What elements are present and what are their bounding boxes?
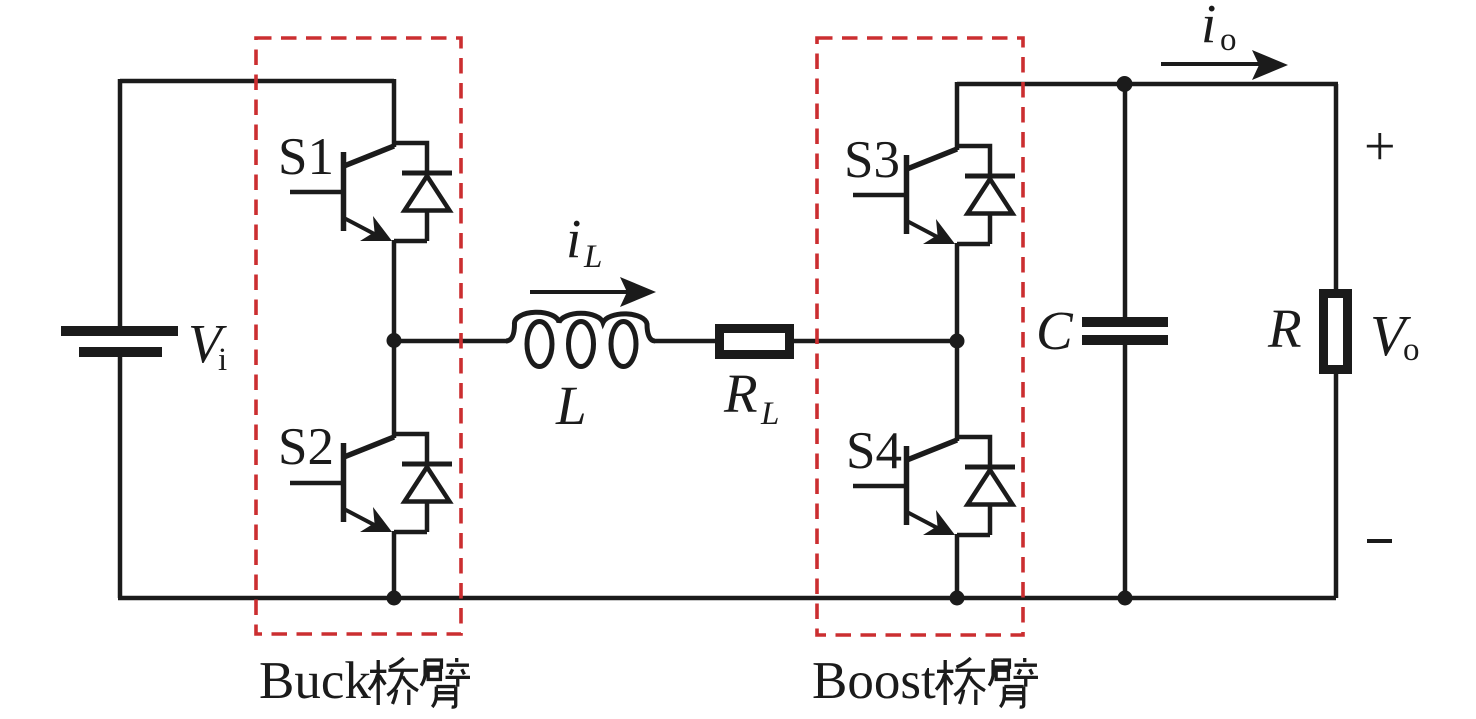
wire: S3 emitter to mid node B (955, 243, 960, 344)
diode D1 (antiparallel with S1) (394, 143, 452, 241)
wire: capacitor top branch (1123, 84, 1128, 318)
svg-text:S3: S3 (844, 131, 900, 189)
wire: S4 collector leg from node B (955, 344, 960, 441)
wire: capacitor bottom branch (1123, 344, 1128, 598)
junction dot: capacitor top (1117, 76, 1133, 92)
transistor S4 (IGBT) (853, 440, 957, 535)
svg-text:i: i (566, 208, 581, 269)
svg-text:+: + (1364, 116, 1396, 178)
hanzi bi (arm) of Buck label (421, 658, 470, 707)
svg-text:R: R (723, 363, 758, 424)
hanzi bi (arm) of Boost label (989, 658, 1038, 707)
wire: bottom rail (118, 596, 1336, 601)
node B junction dot (950, 334, 965, 349)
svg-text:Boost: Boost (812, 652, 936, 710)
battery Vi (61, 331, 178, 352)
wire: S1 collector leg (392, 79, 397, 147)
wire: top-left rail from battery+ to Buck leg (120, 79, 394, 84)
wire: RL to node B (793, 339, 957, 344)
svg-text:L: L (555, 375, 587, 436)
wire: S2 collector leg from node A (392, 341, 397, 438)
hanzi qiao (bridge) of Boost label (936, 658, 985, 705)
transistor S1 (IGBT) (290, 146, 394, 241)
hanzi qiao (bridge) of Buck label (369, 658, 418, 705)
capacitor C plates (1082, 322, 1168, 340)
label minus sign (1367, 539, 1392, 543)
resistor R (output load body) (1324, 294, 1348, 370)
svg-text:i: i (1201, 0, 1216, 54)
svg-text:S2: S2 (278, 418, 334, 476)
wire: right rail upper (corner to R top) (1334, 84, 1339, 290)
junction dot: capacitor bottom at bottom rail (1118, 591, 1133, 606)
node A junction dot (387, 333, 402, 348)
svg-text:S1: S1 (278, 128, 334, 186)
svg-text:Buck: Buck (259, 652, 371, 710)
wire: S1 emitter to mid node A (392, 240, 397, 341)
arrow iL (inductor current) (530, 277, 656, 307)
arrow io (output current) (1161, 50, 1288, 80)
junction dot: S2 emitter at bottom rail (387, 591, 402, 606)
wire: S4 emitter to bottom rail (955, 534, 960, 598)
svg-text:o: o (1403, 332, 1420, 368)
wire: left rail upper (battery top) (118, 79, 123, 327)
transistor S2 (IGBT) (290, 437, 394, 532)
junction dot: S4 emitter at bottom rail (950, 591, 965, 606)
Buck bridge-arm dashed box (256, 38, 461, 634)
wire: top-right rail from S3 to output corner (957, 82, 1338, 87)
wire: node A to inductor (394, 339, 506, 344)
inductor L (506, 312, 655, 366)
svg-text:i: i (218, 342, 227, 378)
Boost bridge-arm dashed box (817, 38, 1023, 635)
svg-text:L: L (760, 396, 779, 432)
svg-text:L: L (583, 239, 602, 275)
wire: inductor to RL (655, 339, 717, 344)
wire: left rail lower (battery bottom to bottom rail) (118, 356, 123, 598)
resistor RL (body) (720, 329, 790, 355)
diode D4 (antiparallel with S4) (957, 437, 1015, 535)
svg-text:R: R (1267, 298, 1302, 359)
wire: right rail lower (R bottom to bottom rail) (1334, 373, 1339, 598)
wire: S2 emitter to bottom rail (392, 531, 397, 598)
svg-text:C: C (1036, 300, 1074, 361)
svg-text:S4: S4 (846, 422, 902, 480)
wire: S3 collector leg (955, 82, 960, 150)
svg-text:o: o (1220, 22, 1237, 58)
transistor S3 (IGBT) (853, 149, 957, 244)
diode D3 (antiparallel with S3) (957, 146, 1015, 244)
diode D2 (antiparallel with S2) (394, 434, 452, 532)
